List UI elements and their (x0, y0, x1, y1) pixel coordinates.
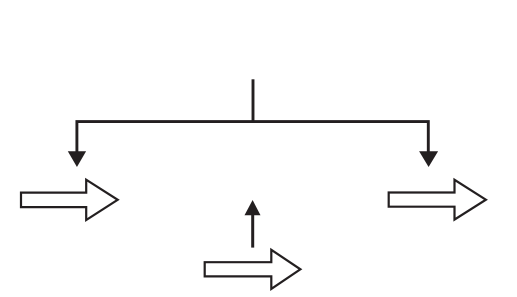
block arrow: right (389, 180, 486, 220)
arrowhead: left down arrow (68, 151, 86, 167)
block arrow: center bottom (205, 250, 301, 289)
up arrow: head (245, 200, 261, 215)
up arrow: shaft (251, 214, 254, 248)
arrowhead: right down arrow (419, 151, 438, 167)
block arrow: left (21, 180, 118, 220)
wire: horizontal branch with left and right drops (77, 122, 428, 153)
wire: center stem (252, 79, 255, 121)
